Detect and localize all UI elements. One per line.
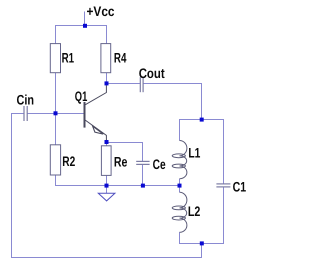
resistor R1 bbox=[50, 44, 74, 73]
svg-text:Ce: Ce bbox=[153, 157, 166, 172]
resistor R2 bbox=[50, 145, 75, 175]
node Ce bottom junction bbox=[141, 184, 145, 188]
wire R1 top lead bbox=[55, 25, 57, 44]
svg-text:+Vcc: +Vcc bbox=[87, 4, 115, 19]
wire bottom rail bbox=[55, 185, 180, 187]
inductor L1 bbox=[172, 141, 200, 179]
node collector junction bbox=[105, 81, 109, 85]
wire C1 bottom lead bbox=[223, 187, 225, 244]
wire L2 bottom lead bbox=[179, 232, 181, 244]
svg-text:R4: R4 bbox=[114, 51, 127, 66]
capacitor Cin bbox=[17, 93, 35, 122]
svg-text:L1: L1 bbox=[188, 146, 200, 161]
inductor L2 bbox=[172, 192, 200, 232]
wire R2 top lead bbox=[55, 114, 57, 145]
wire ground stub bbox=[106, 186, 108, 194]
node tank top junction bbox=[200, 118, 204, 122]
node L1 L2 tap junction bbox=[178, 184, 182, 188]
transistor Q1 bbox=[75, 85, 107, 140]
wire Vcc stub bbox=[84, 12, 86, 27]
wire R1 bottom lead bbox=[55, 73, 57, 114]
resistor R4 bbox=[101, 44, 127, 73]
wire R2 bottom lead bbox=[55, 175, 57, 186]
wire base right segment bbox=[27, 113, 84, 115]
node base junction bbox=[54, 111, 58, 115]
wire L1 top lead bbox=[179, 120, 181, 141]
node tank bottom junction bbox=[200, 241, 204, 245]
wire top rail bbox=[55, 25, 107, 27]
wire R4 top lead bbox=[106, 25, 108, 44]
wire Ce top lead bbox=[142, 142, 144, 161]
wire feedback bottom horizontal bbox=[11, 257, 202, 259]
wire feedback left vertical bbox=[11, 113, 13, 258]
wire Cout drop vertical bbox=[201, 84, 203, 121]
wire Cout left segment bbox=[107, 83, 141, 85]
svg-text:R2: R2 bbox=[62, 154, 75, 169]
svg-text:Re: Re bbox=[114, 155, 128, 170]
node Vcc junction bbox=[83, 24, 87, 28]
svg-text:Q1: Q1 bbox=[75, 89, 88, 104]
svg-text:Cout: Cout bbox=[139, 66, 165, 81]
ground bbox=[98, 193, 115, 201]
node emitter junction bbox=[105, 140, 109, 144]
resistor Re bbox=[101, 146, 127, 176]
capacitor Cout bbox=[139, 66, 165, 92]
wire Cout right segment bbox=[143, 83, 202, 85]
wire feedback stub up bbox=[201, 244, 203, 259]
wire C1 top lead bbox=[223, 120, 225, 184]
capacitor C1 bbox=[216, 179, 246, 194]
wire L1 bottom lead bbox=[179, 179, 181, 186]
wire Re bottom lead bbox=[106, 175, 108, 186]
node ground junction bbox=[105, 184, 109, 188]
wire R4 bottom lead bbox=[106, 73, 108, 84]
svg-text:Cin: Cin bbox=[17, 93, 35, 108]
wire tank bottom rail bbox=[179, 243, 224, 245]
capacitor Ce bbox=[136, 157, 166, 172]
svg-text:L2: L2 bbox=[188, 204, 201, 219]
wire L2 top lead bbox=[179, 186, 181, 193]
wire Ce top horizontal bbox=[107, 142, 144, 144]
svg-text:R1: R1 bbox=[62, 51, 75, 66]
wire Re top lead bbox=[106, 140, 108, 146]
wire Ce bottom lead bbox=[142, 164, 144, 186]
wire tank top rail bbox=[179, 119, 224, 121]
wire base left segment bbox=[11, 113, 24, 115]
svg-text:C1: C1 bbox=[233, 179, 247, 194]
